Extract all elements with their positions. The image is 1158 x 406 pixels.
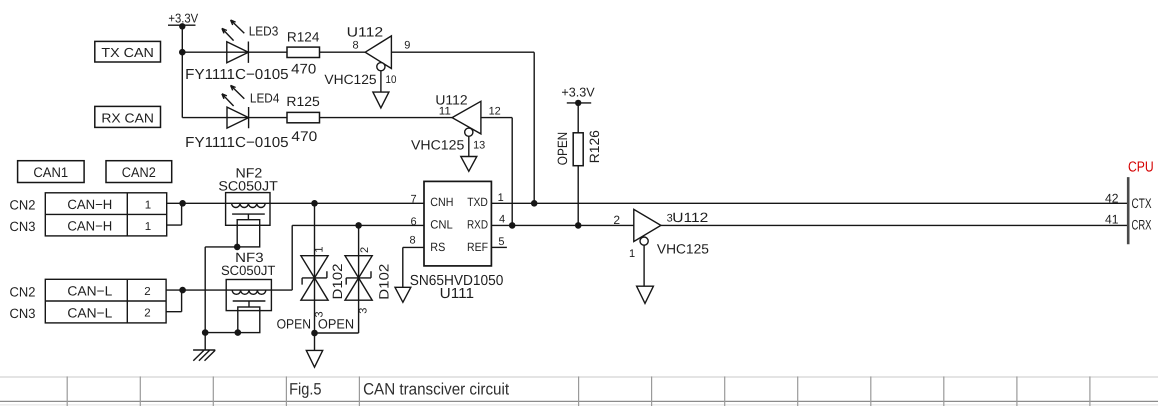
svg-text:Fig.5: Fig.5 [289, 380, 321, 398]
svg-text:CAN−H: CAN−H [67, 197, 112, 212]
svg-text:R125: R125 [286, 94, 319, 109]
svg-text:2: 2 [359, 247, 371, 253]
svg-text:OPEN: OPEN [277, 317, 311, 332]
svg-text:2: 2 [613, 213, 620, 227]
svg-text:4: 4 [499, 214, 505, 226]
svg-text:CRX: CRX [1132, 218, 1152, 233]
svg-text:CN3: CN3 [10, 219, 36, 234]
svg-text:U112: U112 [672, 210, 708, 225]
svg-text:CNH: CNH [430, 195, 453, 209]
svg-text:SC050JT: SC050JT [221, 263, 275, 278]
svg-text:1: 1 [629, 248, 635, 260]
svg-text:R126: R126 [587, 130, 602, 163]
svg-text:RXD: RXD [467, 218, 488, 232]
svg-text:7: 7 [411, 194, 417, 206]
svg-text:LED4: LED4 [250, 91, 280, 106]
svg-text:RS: RS [430, 240, 445, 254]
svg-text:CAN−L: CAN−L [67, 284, 112, 299]
svg-text:OPEN: OPEN [318, 317, 354, 332]
svg-text:SC050JT: SC050JT [218, 179, 277, 194]
svg-text:470: 470 [291, 128, 317, 144]
svg-text:FY1111C−0105: FY1111C−0105 [185, 67, 288, 83]
svg-text:CAN1: CAN1 [33, 165, 68, 180]
svg-text:1: 1 [145, 221, 151, 233]
svg-text:10: 10 [386, 74, 397, 86]
svg-text:6: 6 [411, 216, 417, 228]
svg-text:3: 3 [357, 308, 369, 314]
svg-text:CTX: CTX [1132, 196, 1152, 211]
svg-text:CNL: CNL [430, 218, 453, 232]
svg-text:1: 1 [498, 192, 504, 204]
svg-text:470: 470 [291, 61, 316, 77]
svg-text:8: 8 [410, 234, 416, 246]
svg-text:8: 8 [353, 40, 359, 52]
svg-text:CPU: CPU [1128, 160, 1154, 176]
svg-text:41: 41 [1105, 213, 1119, 227]
svg-text:D102: D102 [376, 264, 391, 300]
svg-text:9: 9 [404, 40, 410, 52]
svg-text:FY1111C−0105: FY1111C−0105 [185, 135, 288, 151]
svg-text:U111: U111 [440, 286, 474, 302]
svg-text:CAN2: CAN2 [122, 165, 156, 180]
svg-text:D102: D102 [330, 264, 345, 300]
svg-text:REF: REF [467, 240, 488, 254]
svg-text:2: 2 [144, 286, 150, 298]
svg-text:LED3: LED3 [249, 23, 279, 38]
svg-text:42: 42 [1105, 192, 1119, 206]
svg-text:TXD: TXD [467, 195, 488, 209]
svg-text:RX CAN: RX CAN [101, 110, 154, 125]
svg-text:VHC125: VHC125 [324, 72, 376, 87]
svg-text:R124: R124 [287, 30, 320, 45]
svg-text:5: 5 [498, 236, 504, 248]
svg-text:OPEN: OPEN [555, 132, 570, 165]
svg-text:TX CAN: TX CAN [101, 45, 153, 60]
svg-text:1: 1 [145, 199, 151, 211]
svg-text:12: 12 [489, 105, 501, 117]
svg-text:CAN−H: CAN−H [67, 219, 112, 234]
svg-text:U112: U112 [347, 24, 384, 39]
svg-text:CAN−L: CAN−L [67, 305, 112, 320]
svg-text:13: 13 [473, 140, 485, 152]
svg-text:CN3: CN3 [10, 306, 36, 321]
svg-text:11: 11 [439, 105, 451, 117]
svg-text:+3.3V: +3.3V [168, 10, 198, 25]
svg-text:VHC125: VHC125 [657, 241, 709, 256]
svg-text:CN2: CN2 [10, 197, 36, 212]
svg-text:1: 1 [313, 246, 325, 252]
svg-text:2: 2 [144, 307, 150, 319]
svg-text:CAN transciver circuit: CAN transciver circuit [363, 380, 509, 398]
svg-text:CN2: CN2 [10, 285, 36, 300]
svg-text:VHC125: VHC125 [411, 138, 464, 153]
svg-text:+3.3V: +3.3V [561, 84, 595, 99]
